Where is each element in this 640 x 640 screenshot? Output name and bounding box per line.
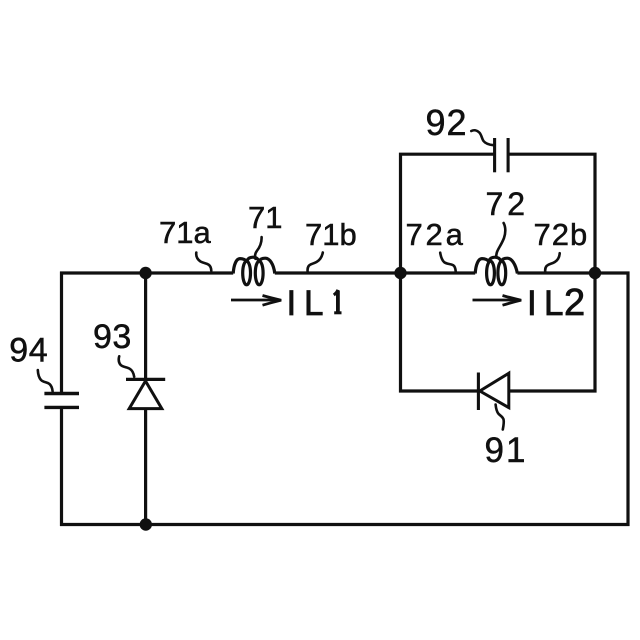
svg-text:93: 93 bbox=[93, 318, 132, 356]
svg-text:I: I bbox=[527, 284, 537, 323]
svg-text:71a: 71a bbox=[159, 215, 211, 250]
svg-text:71: 71 bbox=[248, 200, 282, 235]
svg-text:L: L bbox=[544, 284, 563, 323]
svg-text:71b: 71b bbox=[305, 217, 357, 252]
svg-text:94: 94 bbox=[9, 332, 48, 370]
svg-text:L: L bbox=[304, 284, 323, 323]
svg-text:72b: 72b bbox=[534, 217, 589, 252]
svg-text:91: 91 bbox=[485, 431, 528, 470]
svg-text:92: 92 bbox=[426, 102, 468, 143]
svg-text:I: I bbox=[287, 284, 297, 323]
svg-text:2: 2 bbox=[564, 282, 585, 324]
svg-text:72a: 72a bbox=[406, 217, 466, 252]
svg-text:72: 72 bbox=[486, 186, 530, 222]
